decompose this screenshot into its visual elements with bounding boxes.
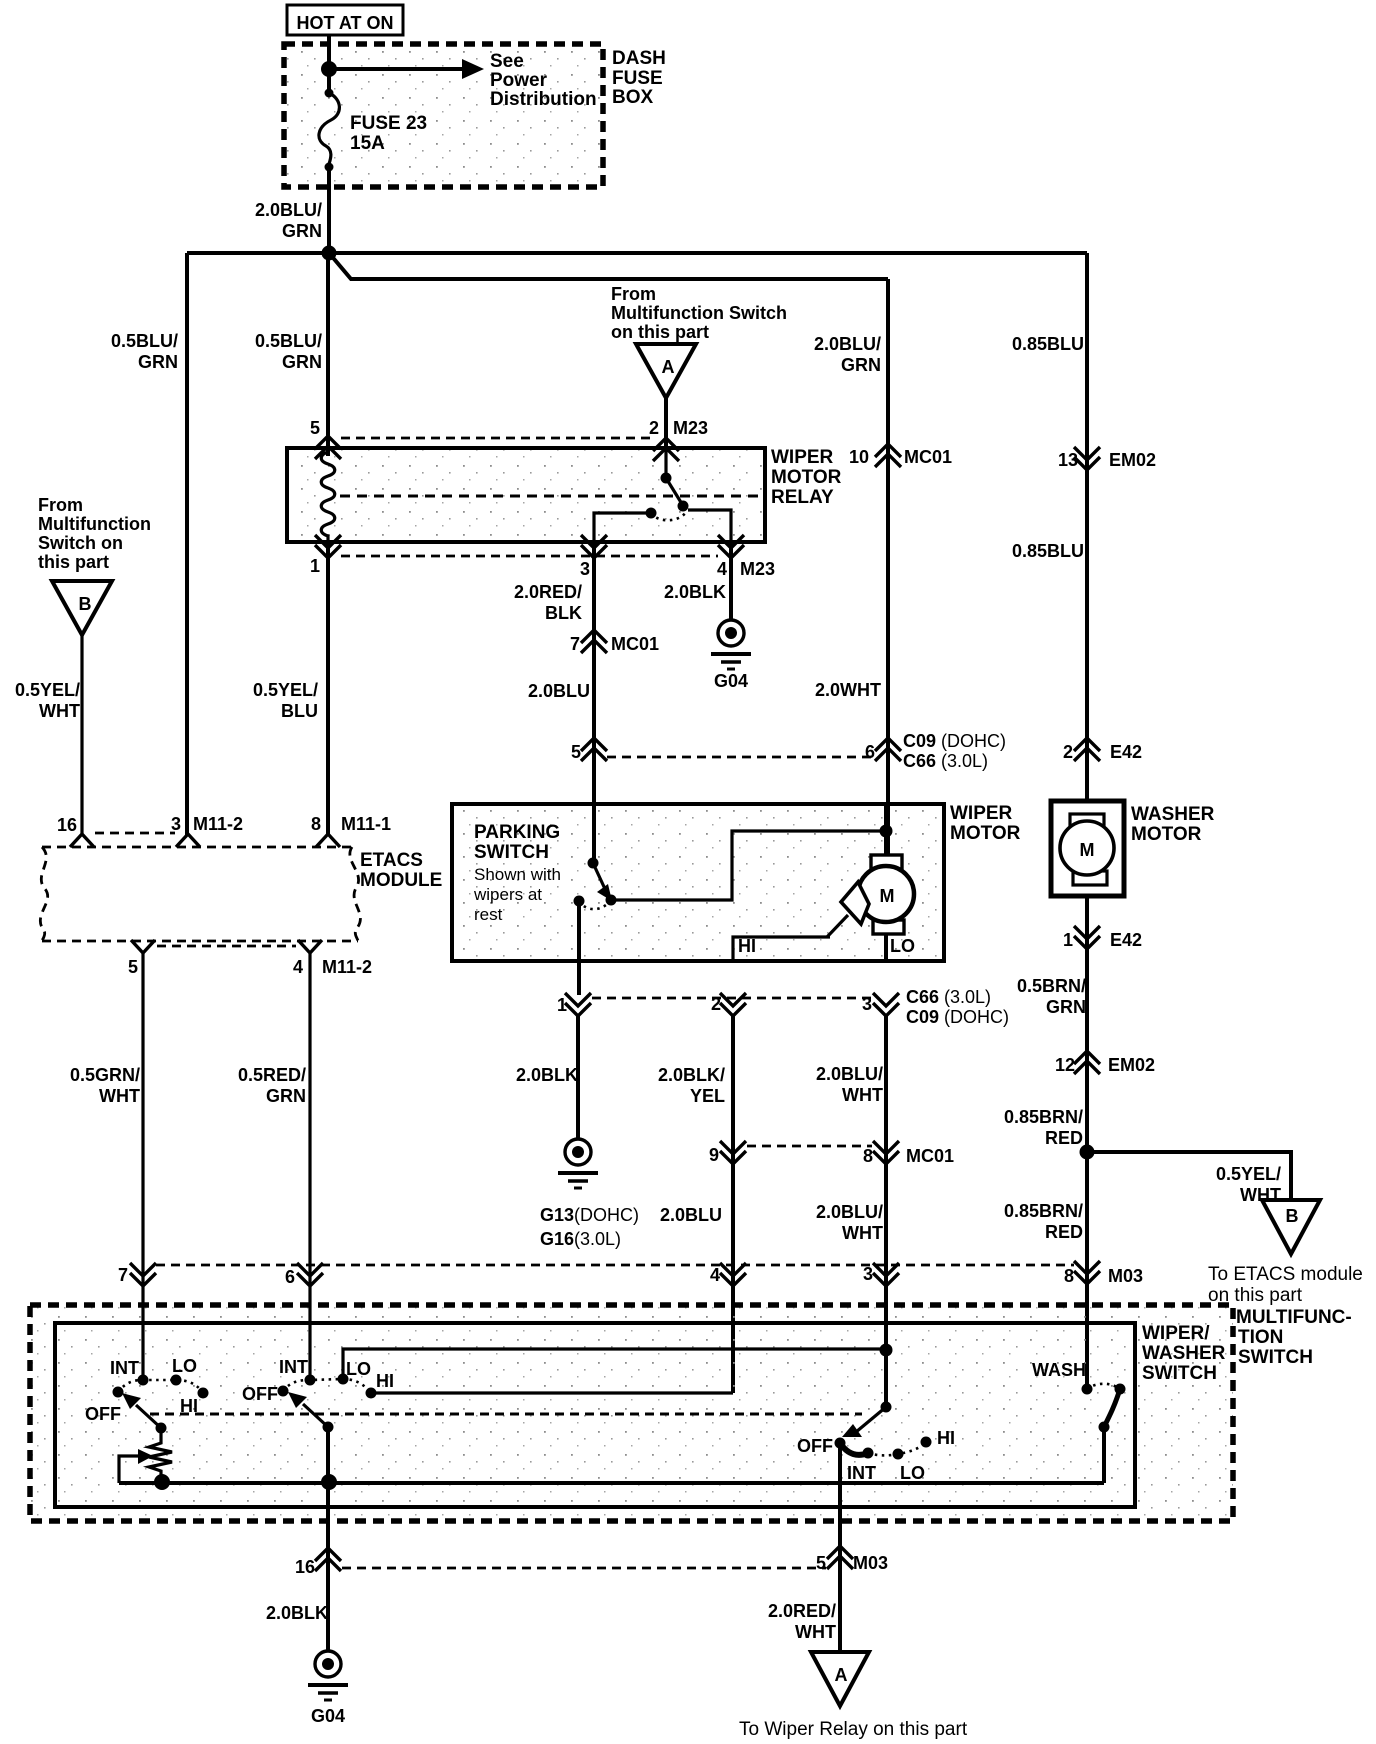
ETACS pin 3 M11-2	[176, 834, 200, 847]
parking switch contact left (to pin1)	[574, 896, 585, 907]
svg-text:0.5BRN/: 0.5BRN/	[1017, 976, 1086, 996]
wire: diagonal branch and 2.0BLU/GRN horizontal to wiper motor feed	[329, 253, 888, 279]
node: fuse box feed junction	[321, 61, 337, 77]
svg-text:GRN: GRN	[1046, 997, 1086, 1017]
svg-text:From: From	[38, 495, 83, 515]
svg-text:HI: HI	[937, 1428, 955, 1448]
svg-text:12: 12	[1055, 1055, 1075, 1075]
wire: switch2 arm to bus	[326, 1427, 330, 1483]
svg-text:M23: M23	[673, 418, 708, 438]
dashed link pin5-pin4	[157, 945, 296, 948]
connector 10 MC01	[875, 444, 901, 467]
connector 16	[315, 1548, 341, 1571]
wiper motor relay box (stippled)	[287, 448, 765, 542]
wire arrow to See Power Distribution	[329, 67, 462, 71]
svg-text:0.5RED/: 0.5RED/	[238, 1065, 306, 1085]
dashed connector link pin1-pin3-pin4	[341, 555, 718, 558]
svg-text:13: 13	[1058, 450, 1078, 470]
svg-text:5: 5	[816, 1553, 826, 1573]
svg-text:HI: HI	[738, 936, 756, 956]
svg-text:MC01: MC01	[904, 447, 952, 467]
svg-text:4: 4	[717, 559, 727, 579]
svg-text:MC01: MC01	[906, 1146, 954, 1166]
svg-text:BLK: BLK	[545, 603, 582, 623]
svg-text:M: M	[880, 886, 895, 906]
washer motor box	[1051, 801, 1124, 896]
relay coil	[321, 452, 335, 542]
svg-text:0.5BLU/: 0.5BLU/	[255, 331, 322, 351]
switch 2 arm	[323, 1422, 334, 1433]
svg-text:PARKING: PARKING	[474, 822, 560, 843]
svg-text:ETACS: ETACS	[360, 850, 423, 871]
fuse FUSE 23 15A (S-curve symbol)	[319, 93, 339, 164]
svg-text:2.0BLU/: 2.0BLU/	[816, 1202, 883, 1222]
connector 1 E42	[1074, 926, 1100, 949]
svg-text:WIPER/: WIPER/	[1142, 1323, 1210, 1344]
wiper motor crank	[841, 882, 869, 924]
connector 3 (M03)	[873, 1263, 899, 1286]
washer motor M	[1070, 814, 1104, 827]
svg-text:FUSE: FUSE	[612, 68, 663, 89]
mechanical link dashed line between switch arms	[150, 1413, 862, 1416]
wire triangle B to ETACS pin 16	[80, 635, 83, 835]
svg-text:WIPER: WIPER	[950, 803, 1013, 824]
svg-text:WHT: WHT	[795, 1622, 836, 1642]
svg-text:G04: G04	[311, 1706, 345, 1726]
svg-text:Shown with: Shown with	[474, 865, 561, 884]
svg-text:HOT AT ON: HOT AT ON	[297, 13, 394, 33]
svg-text:M11-2: M11-2	[193, 814, 243, 834]
relay pin 1	[315, 535, 341, 558]
svg-text:B: B	[1286, 1206, 1299, 1226]
connector 12 EM02	[1074, 1051, 1100, 1074]
wire: relay pin1 down to ETACS pin 8	[326, 542, 330, 835]
svg-text:2: 2	[1063, 742, 1073, 762]
svg-text:2.0BLU: 2.0BLU	[528, 681, 590, 701]
svg-text:RED: RED	[1045, 1222, 1083, 1242]
svg-text:Switch on: Switch on	[38, 533, 123, 553]
svg-text:0.5BLU/: 0.5BLU/	[111, 331, 178, 351]
svg-text:HI: HI	[180, 1396, 198, 1416]
svg-text:C09 (DOHC): C09 (DOHC)	[906, 1007, 1009, 1027]
svg-text:See: See	[490, 51, 524, 72]
svg-text:DASH: DASH	[612, 48, 666, 69]
svg-text:2.0BLU/: 2.0BLU/	[255, 200, 322, 220]
svg-text:0.5YEL/: 0.5YEL/	[253, 680, 318, 700]
svg-text:HI: HI	[376, 1371, 394, 1391]
relay contact left (to pin 3)	[646, 508, 657, 519]
long dashed link pins 7-6-4-3-8	[156, 1264, 1074, 1267]
relay pin 4 label M23	[718, 535, 744, 558]
relay switch arm	[666, 478, 682, 504]
node: washer feed junction	[1080, 1145, 1095, 1160]
svg-text:10: 10	[849, 447, 869, 467]
svg-text:YEL: YEL	[690, 1086, 725, 1106]
svg-text:6: 6	[285, 1267, 295, 1287]
node: main power junction	[322, 246, 337, 261]
svg-text:0.85BRN/: 0.85BRN/	[1004, 1201, 1083, 1221]
wire HI from motor	[733, 937, 830, 961]
svg-text:2.0BLK: 2.0BLK	[664, 582, 726, 602]
svg-text:rest: rest	[474, 905, 503, 924]
svg-text:2.0BLU/: 2.0BLU/	[814, 334, 881, 354]
wire: ETACS pin5 down to wiper switch INT (0.5GRN/WHT)	[141, 953, 144, 1380]
connector 7 (M03)	[130, 1263, 156, 1286]
svg-text:0.85BLU: 0.85BLU	[1012, 541, 1084, 561]
svg-text:6: 6	[865, 742, 875, 762]
parking switch arm	[593, 863, 605, 889]
svg-text:2.0WHT: 2.0WHT	[815, 680, 881, 700]
connector 2 E42	[1074, 738, 1100, 761]
svg-text:4: 4	[293, 957, 303, 977]
connector 13 EM02	[1074, 447, 1100, 470]
svg-text:3: 3	[171, 814, 181, 834]
dashed link 9-8	[747, 1145, 872, 1148]
wire LO from motor	[884, 934, 888, 961]
svg-text:M23: M23	[740, 559, 775, 579]
wire: washer arm to bus	[1102, 1427, 1106, 1483]
ETACS module dashed outline	[42, 846, 352, 849]
wire: relay pin4 to ground G04	[729, 542, 733, 619]
switch 1 variable resistor	[149, 1428, 172, 1482]
svg-text:MULTIFUNC-: MULTIFUNC-	[1236, 1307, 1352, 1328]
svg-text:SWITCH: SWITCH	[1142, 1363, 1217, 1384]
svg-text:C66 (3.0L): C66 (3.0L)	[906, 987, 991, 1007]
svg-text:WASHER: WASHER	[1131, 804, 1215, 825]
dashed connector link pin5-pin2	[341, 437, 652, 440]
wiper/washer switch inner box	[55, 1323, 1135, 1507]
svg-text:1: 1	[557, 995, 567, 1015]
svg-text:3: 3	[580, 559, 590, 579]
svg-text:GRN: GRN	[138, 352, 178, 372]
contact travel dashed arc	[579, 900, 611, 909]
wire: switch2 HI over to HI speed line	[371, 1391, 733, 1394]
multifunction switch outer dashed box (stippled)	[30, 1305, 1233, 1521]
svg-text:M11-2: M11-2	[322, 957, 372, 977]
wire from triangle A to relay pin 2	[664, 398, 668, 448]
svg-text:this part: this part	[38, 552, 109, 572]
svg-text:B: B	[79, 594, 92, 614]
wire: switch3 OFF down to connector 5 M03	[838, 1443, 842, 1652]
wire from HOT AT ON down into fuse box	[327, 35, 331, 92]
relay switch: common from pin2	[664, 448, 667, 478]
svg-text:E42: E42	[1110, 742, 1142, 762]
svg-text:MOTOR: MOTOR	[771, 467, 842, 488]
svg-text:BOX: BOX	[612, 87, 654, 108]
switch 3 arm bridge to INT	[840, 1443, 868, 1455]
svg-text:TION: TION	[1238, 1327, 1283, 1348]
svg-text:MOTOR: MOTOR	[950, 823, 1021, 844]
svg-text:LO: LO	[900, 1463, 925, 1483]
svg-text:LO: LO	[346, 1359, 371, 1379]
pin 3 connector C66/C09	[873, 993, 899, 1016]
connector 4 (M03)	[720, 1263, 746, 1286]
svg-text:LO: LO	[890, 936, 915, 956]
wire: junction down to motor	[884, 805, 888, 856]
svg-text:0.5YEL/: 0.5YEL/	[1216, 1164, 1281, 1184]
svg-text:To Wiper Relay on this part: To Wiper Relay on this part	[739, 1719, 968, 1740]
svg-text:15A: 15A	[350, 133, 385, 154]
wire: relay pin3 down to parking switch	[592, 542, 596, 863]
ETACS pin 5	[131, 940, 155, 953]
svg-text:7: 7	[570, 634, 580, 654]
ETACS pin 8 M11-1	[316, 834, 340, 847]
wire: switch2 LO up and over to LO speed line	[343, 1349, 886, 1379]
svg-text:9: 9	[709, 1145, 719, 1165]
ground G04 (relay)	[711, 620, 751, 669]
svg-text:5: 5	[310, 418, 320, 438]
svg-text:WHT: WHT	[842, 1085, 883, 1105]
svg-text:WASH: WASH	[1032, 1360, 1086, 1380]
node: resistor to bus	[154, 1474, 170, 1490]
svg-text:OFF: OFF	[242, 1384, 278, 1404]
connector 8 M03	[1074, 1261, 1100, 1284]
svg-text:5: 5	[128, 957, 138, 977]
parking switch contact right	[606, 895, 617, 906]
node: LO line junction	[880, 1344, 893, 1357]
svg-text:Distribution: Distribution	[490, 89, 597, 110]
switch 3 (wiper speed selector)	[881, 1402, 892, 1413]
svg-text:INT: INT	[847, 1463, 876, 1483]
wire: left drop 0.5BLU/GRN	[185, 253, 189, 835]
svg-text:WHT: WHT	[842, 1223, 883, 1243]
svg-text:M: M	[1080, 840, 1095, 860]
svg-text:FUSE 23: FUSE 23	[350, 113, 427, 134]
parking switch pin 1	[577, 901, 581, 995]
svg-text:C09 (DOHC): C09 (DOHC)	[903, 731, 1006, 751]
svg-text:5: 5	[571, 742, 581, 762]
svg-text:16: 16	[295, 1557, 315, 1577]
svg-text:G16(3.0L): G16(3.0L)	[540, 1229, 621, 1249]
svg-text:3: 3	[862, 994, 872, 1014]
relay contact travel dashed arc	[651, 511, 687, 520]
relay pin 2 label M23	[653, 438, 679, 461]
svg-text:on this part: on this part	[611, 322, 709, 342]
HOT AT ON box	[287, 5, 403, 35]
relay internal dashed divider	[340, 495, 763, 498]
relay pin 3	[581, 535, 607, 558]
svg-text:WHT: WHT	[39, 701, 80, 721]
relay contact wiring to pin 4	[688, 510, 731, 542]
relay pin 5	[315, 436, 341, 459]
svg-text:8: 8	[863, 1146, 873, 1166]
svg-text:EM02: EM02	[1109, 450, 1156, 470]
svg-text:INT: INT	[279, 1357, 308, 1377]
triangle connector A (to wiper relay)	[811, 1652, 869, 1706]
wire from fuse to main junction	[327, 164, 331, 253]
svg-text:2.0BLK: 2.0BLK	[266, 1603, 328, 1623]
svg-text:EM02: EM02	[1108, 1055, 1155, 1075]
dashed link 16 - 5	[342, 1567, 826, 1570]
wire: bus to connector 16 and ground	[326, 1483, 330, 1650]
svg-text:WIPER: WIPER	[771, 447, 834, 468]
wire: HI line pin2 down into multifunction switch	[731, 1015, 735, 1393]
connector 7 MC01	[581, 630, 607, 653]
switch common bus (bottom)	[119, 1481, 1104, 1485]
washer switch arm	[1104, 1389, 1120, 1427]
connector 6 C09/C66	[875, 738, 901, 761]
svg-text:2.0RED/: 2.0RED/	[768, 1601, 836, 1621]
svg-text:G13(DOHC): G13(DOHC)	[540, 1205, 639, 1225]
svg-text:A: A	[835, 1665, 848, 1685]
svg-text:SWITCH: SWITCH	[474, 842, 549, 863]
svg-text:0.85BRN/: 0.85BRN/	[1004, 1107, 1083, 1127]
svg-text:0.5YEL/: 0.5YEL/	[15, 680, 80, 700]
node: motor feed junction	[880, 825, 893, 838]
wire: 2.0WHT feed down to wiper motor	[886, 279, 890, 856]
connector 6 (M03)	[297, 1263, 323, 1286]
triangle connector B (to ETACS)	[1262, 1200, 1320, 1254]
connector 5 (to wiper motor)	[581, 738, 607, 761]
parking switch / wiper motor box (stippled)	[452, 804, 944, 961]
svg-text:7: 7	[118, 1265, 128, 1285]
wire: relay coil feed down from junction	[326, 253, 330, 456]
svg-text:0.5GRN/: 0.5GRN/	[70, 1065, 140, 1085]
wire: ETACS pin4 down to wiper switch INT2 (0.5RED/GRN)	[308, 953, 311, 1380]
svg-text:8: 8	[1064, 1266, 1074, 1286]
resistor wiper arrow	[119, 1456, 138, 1483]
svg-text:M03: M03	[853, 1553, 888, 1573]
svg-text:OFF: OFF	[85, 1404, 121, 1424]
svg-text:WASHER: WASHER	[1142, 1343, 1226, 1364]
svg-text:3: 3	[863, 1264, 873, 1284]
switch 1 arm	[156, 1423, 167, 1434]
svg-text:2.0BLK/: 2.0BLK/	[658, 1065, 725, 1085]
svg-text:MC01: MC01	[611, 634, 659, 654]
wire: washer motor down to wash switch	[1085, 896, 1089, 1389]
pin 2 connector	[720, 993, 746, 1016]
wiper motor M	[871, 855, 902, 869]
svg-text:2.0RED/: 2.0RED/	[514, 582, 582, 602]
dash fuse box (dashed enclosure, stippled)	[284, 44, 603, 187]
svg-text:OFF: OFF	[797, 1436, 833, 1456]
wire: pin1 to ground G13/G16	[576, 1015, 580, 1139]
svg-text:MOTOR: MOTOR	[1131, 824, 1202, 845]
svg-text:RELAY: RELAY	[771, 487, 834, 508]
connector 5 M03	[827, 1546, 853, 1569]
svg-text:SWITCH: SWITCH	[1238, 1347, 1313, 1368]
svg-text:Power: Power	[490, 70, 548, 91]
svg-text:From: From	[611, 284, 656, 304]
connector 9	[720, 1141, 746, 1164]
svg-text:INT: INT	[110, 1358, 139, 1378]
svg-text:M11-1: M11-1	[341, 814, 391, 834]
ETACS pin 4 M11-2	[298, 940, 322, 953]
svg-text:8: 8	[311, 814, 321, 834]
svg-text:LO: LO	[172, 1356, 197, 1376]
connector 8 MC01	[873, 1141, 899, 1164]
fuse F23 terminal dot top	[325, 89, 334, 98]
svg-text:GRN: GRN	[266, 1086, 306, 1106]
svg-text:16: 16	[57, 815, 77, 835]
svg-text:Multifunction Switch: Multifunction Switch	[611, 303, 787, 323]
svg-text:0.85BLU: 0.85BLU	[1012, 334, 1084, 354]
svg-text:RED: RED	[1045, 1128, 1083, 1148]
ground G13/G16	[558, 1139, 598, 1188]
svg-text:2.0BLU/: 2.0BLU/	[816, 1064, 883, 1084]
svg-text:E42: E42	[1110, 930, 1142, 950]
svg-text:4: 4	[710, 1265, 720, 1285]
svg-text:BLU: BLU	[281, 701, 318, 721]
wire: 0.85BLU right bus down to washer motor	[1085, 253, 1089, 801]
svg-text:M03: M03	[1108, 1266, 1143, 1286]
parking switch common contact	[588, 858, 599, 869]
wire: right contact to motor common	[611, 831, 886, 900]
svg-text:To ETACS module: To ETACS module	[1208, 1264, 1363, 1285]
wire: top horizontal bus to right (0.85BLU)	[187, 251, 1087, 255]
dashed link conn5-conn6	[607, 756, 874, 759]
svg-text:wipers at: wipers at	[473, 885, 542, 904]
svg-text:1: 1	[1063, 930, 1073, 950]
svg-text:1: 1	[310, 556, 320, 576]
svg-text:Multifunction: Multifunction	[38, 514, 151, 534]
svg-text:2.0BLU: 2.0BLU	[660, 1205, 722, 1225]
svg-text:2: 2	[711, 994, 721, 1014]
svg-text:A: A	[662, 357, 675, 377]
ETACS pin 16	[70, 834, 94, 847]
svg-text:GRN: GRN	[841, 355, 881, 375]
svg-text:WHT: WHT	[99, 1086, 140, 1106]
svg-text:GRN: GRN	[282, 352, 322, 372]
dashed link pins 1-2-3	[592, 997, 872, 1000]
dashed link pin16-pin3	[95, 832, 175, 835]
svg-text:2: 2	[649, 418, 659, 438]
wire: branch to triangle B	[1087, 1152, 1291, 1200]
svg-text:C66 (3.0L): C66 (3.0L)	[903, 751, 988, 771]
relay contact wiring to pin 3	[594, 513, 651, 542]
wire: LO line pin3 down into multifunction switch	[884, 1015, 888, 1407]
svg-text:MODULE: MODULE	[360, 870, 442, 891]
ground G04 (switch)	[308, 1651, 348, 1700]
svg-text:2.0BLK: 2.0BLK	[516, 1065, 578, 1085]
svg-text:GRN: GRN	[282, 221, 322, 241]
svg-text:G04: G04	[714, 671, 748, 691]
